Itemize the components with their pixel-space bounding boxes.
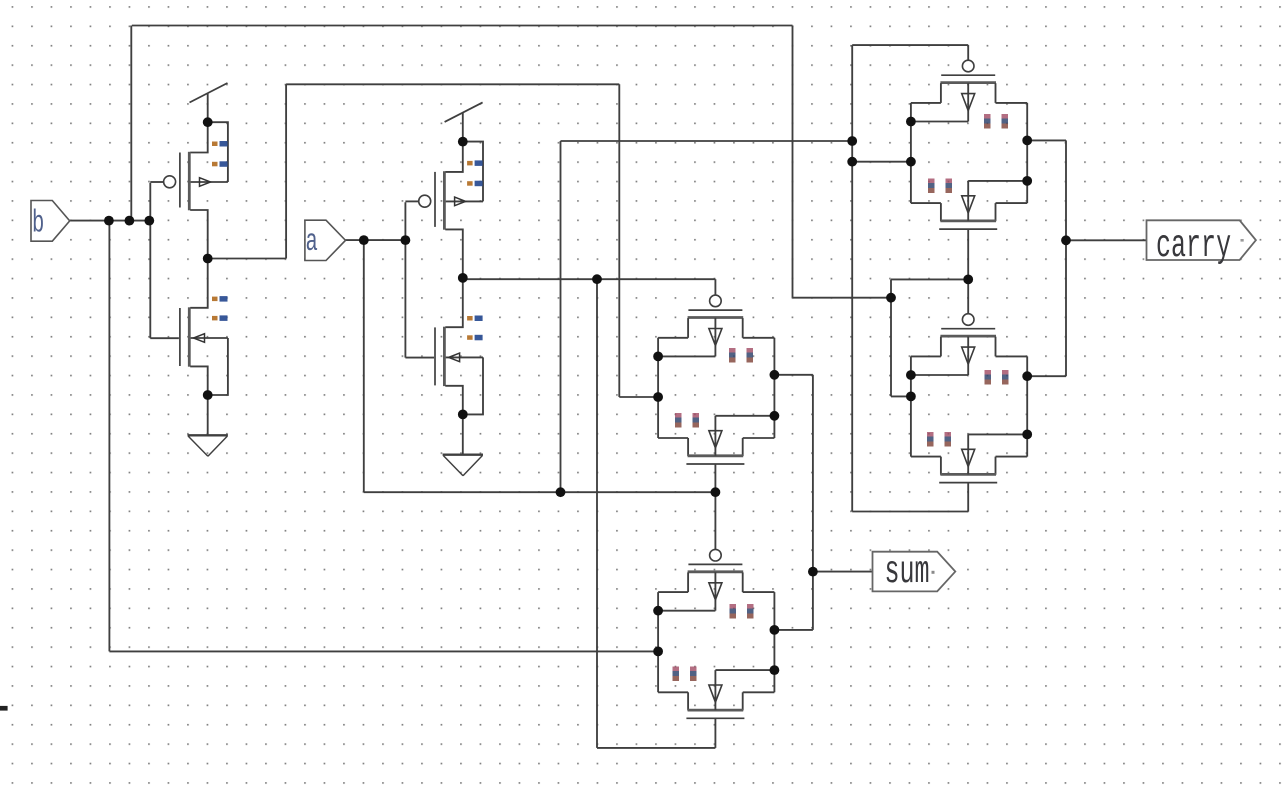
- svg-text:sum: sum: [885, 550, 930, 594]
- svg-text:b: b: [32, 205, 44, 241]
- svg-text:a: a: [306, 224, 318, 260]
- svg-text:carry: carry: [1156, 224, 1231, 268]
